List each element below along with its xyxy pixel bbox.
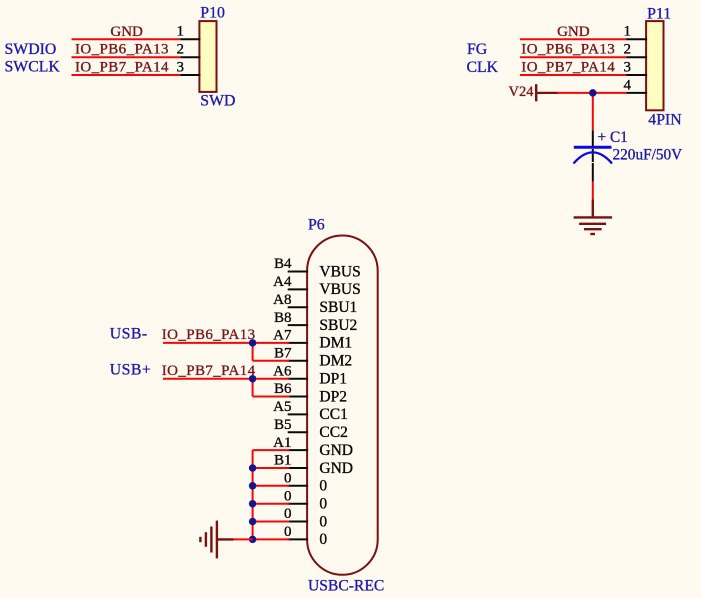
svg-text:GND: GND <box>319 442 353 459</box>
svg-text:FG: FG <box>467 41 487 58</box>
svg-text:A5: A5 <box>273 399 291 415</box>
svg-text:1: 1 <box>624 24 632 40</box>
svg-text:SWD: SWD <box>200 93 235 110</box>
svg-text:A4: A4 <box>273 274 292 290</box>
svg-text:DP1: DP1 <box>319 371 347 388</box>
svg-text:CC1: CC1 <box>319 406 347 423</box>
svg-text:IO_PB7_PA14: IO_PB7_PA14 <box>75 59 169 75</box>
svg-text:V24: V24 <box>509 84 535 100</box>
svg-text:A1: A1 <box>273 435 291 451</box>
svg-text:3: 3 <box>177 59 185 75</box>
svg-text:B5: B5 <box>274 417 292 433</box>
svg-text:1: 1 <box>177 24 185 40</box>
svg-text:DM1: DM1 <box>319 335 352 352</box>
svg-text:IO_PB7_PA14: IO_PB7_PA14 <box>162 363 256 379</box>
svg-text:GND: GND <box>110 24 143 40</box>
svg-text:0: 0 <box>319 531 327 548</box>
svg-text:GND: GND <box>319 460 353 477</box>
svg-text:DP2: DP2 <box>319 388 347 405</box>
svg-text:A8: A8 <box>273 292 291 308</box>
svg-text:USB+: USB+ <box>110 361 152 378</box>
svg-text:SBU1: SBU1 <box>319 299 357 316</box>
svg-text:B6: B6 <box>274 381 292 397</box>
svg-text:IO_PB6_PA13: IO_PB6_PA13 <box>162 327 256 343</box>
svg-text:B1: B1 <box>274 453 292 469</box>
svg-text:CC2: CC2 <box>319 424 347 441</box>
svg-text:4: 4 <box>624 77 632 93</box>
svg-text:SWDIO: SWDIO <box>5 41 57 58</box>
svg-text:2: 2 <box>624 42 632 58</box>
svg-text:IO_PB6_PA13: IO_PB6_PA13 <box>521 42 615 58</box>
svg-text:USBC-REC: USBC-REC <box>308 578 384 595</box>
svg-text:3: 3 <box>624 59 632 75</box>
svg-text:A7: A7 <box>273 328 292 344</box>
svg-text:0: 0 <box>319 496 327 513</box>
svg-text:CLK: CLK <box>467 59 499 76</box>
svg-text:SWCLK: SWCLK <box>5 59 61 76</box>
svg-text:B4: B4 <box>274 256 292 272</box>
svg-text:0: 0 <box>319 478 327 495</box>
svg-text:VBUS: VBUS <box>319 263 360 280</box>
svg-text:IO_PB6_PA13: IO_PB6_PA13 <box>75 42 169 58</box>
svg-text:P10: P10 <box>200 5 225 22</box>
svg-text:+ C1: + C1 <box>598 129 628 146</box>
svg-text:4PIN: 4PIN <box>648 111 682 128</box>
svg-text:0: 0 <box>319 513 327 530</box>
svg-text:SBU2: SBU2 <box>319 317 357 334</box>
svg-text:USB-: USB- <box>110 326 148 343</box>
svg-text:B8: B8 <box>274 310 292 326</box>
svg-text:GND: GND <box>557 24 590 40</box>
svg-text:A6: A6 <box>273 363 292 379</box>
svg-text:VBUS: VBUS <box>319 281 360 298</box>
svg-text:P6: P6 <box>308 217 325 234</box>
svg-text:2: 2 <box>177 42 185 58</box>
svg-text:IO_PB7_PA14: IO_PB7_PA14 <box>521 59 615 75</box>
svg-text:0: 0 <box>284 471 292 487</box>
svg-text:P11: P11 <box>647 6 671 23</box>
svg-text:0: 0 <box>284 524 292 540</box>
svg-text:0: 0 <box>284 488 292 504</box>
svg-text:DM2: DM2 <box>319 353 352 370</box>
svg-text:0: 0 <box>284 506 292 522</box>
svg-text:220uF/50V: 220uF/50V <box>613 147 683 164</box>
svg-text:B7: B7 <box>274 346 292 362</box>
